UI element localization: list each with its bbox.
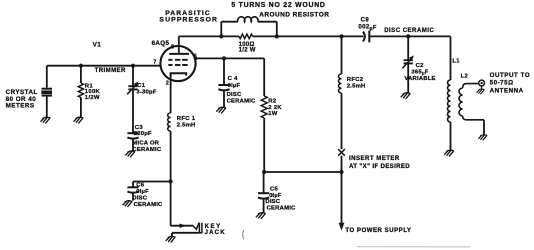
svg-text:SUPPRESSOR: SUPPRESSOR bbox=[159, 16, 218, 23]
svg-text:2.5mH: 2.5mH bbox=[177, 122, 196, 128]
svg-text:1/2W: 1/2W bbox=[85, 95, 100, 101]
svg-text:5: 5 bbox=[171, 44, 174, 50]
svg-text:AT "X" IF DESIRED: AT "X" IF DESIRED bbox=[349, 163, 410, 170]
svg-text:V1: V1 bbox=[93, 42, 102, 49]
svg-text:KEY: KEY bbox=[205, 224, 222, 230]
svg-text:CERAMIC: CERAMIC bbox=[227, 98, 256, 104]
svg-text:RFC 1: RFC 1 bbox=[177, 116, 196, 122]
svg-text:5 TURNS NO 22 WOUND: 5 TURNS NO 22 WOUND bbox=[231, 2, 325, 9]
svg-text:6: 6 bbox=[194, 53, 197, 59]
svg-text:C2: C2 bbox=[416, 63, 425, 69]
svg-text:AROUND RESISTOR: AROUND RESISTOR bbox=[259, 11, 329, 18]
svg-text:C1: C1 bbox=[137, 83, 146, 89]
svg-text:TRIMMER: TRIMMER bbox=[95, 67, 126, 74]
svg-text:CERAMIC: CERAMIC bbox=[267, 206, 296, 212]
svg-text:METERS: METERS bbox=[6, 103, 35, 110]
svg-text:1W: 1W bbox=[268, 111, 278, 117]
svg-text:L2: L2 bbox=[461, 74, 469, 80]
svg-text:MICA OR: MICA OR bbox=[132, 141, 159, 147]
svg-text:0IµF: 0IµF bbox=[228, 83, 241, 89]
svg-text:DISC: DISC bbox=[265, 199, 280, 205]
svg-text:C5: C5 bbox=[270, 187, 279, 193]
svg-text:1/2 W: 1/2 W bbox=[239, 48, 256, 54]
svg-text:RFC2: RFC2 bbox=[347, 77, 364, 83]
svg-text:0IµF: 0IµF bbox=[269, 193, 282, 199]
svg-text:220pF: 220pF bbox=[134, 131, 152, 137]
svg-text:DISC: DISC bbox=[227, 92, 242, 98]
svg-text:6AQ5: 6AQ5 bbox=[152, 40, 170, 47]
svg-text:50-75Ω: 50-75Ω bbox=[490, 80, 514, 87]
svg-text:2.5mH: 2.5mH bbox=[347, 84, 366, 90]
svg-text:TO POWER SUPPLY: TO POWER SUPPLY bbox=[345, 227, 411, 234]
svg-text:C 4: C 4 bbox=[228, 76, 238, 82]
svg-text:L1: L1 bbox=[452, 58, 460, 64]
svg-text:DISC CERAMIC: DISC CERAMIC bbox=[384, 27, 434, 34]
svg-text:0IµF: 0IµF bbox=[136, 189, 149, 195]
svg-text:C9: C9 bbox=[361, 17, 370, 23]
svg-text:ANTENNA: ANTENNA bbox=[490, 87, 524, 94]
svg-text:INSERT METER: INSERT METER bbox=[349, 155, 400, 162]
svg-text:R2: R2 bbox=[268, 99, 277, 105]
svg-text:JACK: JACK bbox=[205, 230, 226, 236]
svg-text:C6: C6 bbox=[136, 182, 145, 188]
svg-text:VARIABLE: VARIABLE bbox=[404, 76, 435, 82]
svg-text:3-30pF: 3-30pF bbox=[136, 90, 156, 96]
svg-text:CERAMIC: CERAMIC bbox=[134, 202, 163, 208]
svg-text:2: 2 bbox=[166, 81, 169, 87]
svg-text:2 2K: 2 2K bbox=[268, 105, 282, 111]
svg-text:7: 7 bbox=[153, 60, 156, 66]
svg-text:DISC: DISC bbox=[132, 195, 147, 201]
svg-text:CERAMIC: CERAMIC bbox=[132, 147, 161, 153]
svg-text:OUTPUT TO: OUTPUT TO bbox=[490, 72, 531, 79]
